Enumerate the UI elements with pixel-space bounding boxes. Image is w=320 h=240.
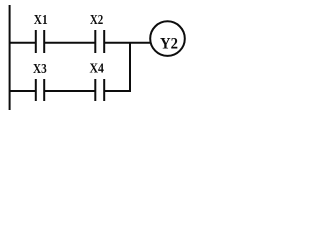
wire rung2 rail to X3 bbox=[9, 90, 36, 92]
svg-text:X4: X4 bbox=[90, 62, 105, 77]
contact X1 bbox=[36, 30, 44, 53]
svg-text:X3: X3 bbox=[33, 62, 47, 77]
wire X1 to X2 bbox=[44, 42, 96, 44]
wire X4 to branch corner bbox=[104, 90, 131, 92]
contact X3 bbox=[36, 79, 44, 101]
wire X2 to coil Y2 bbox=[104, 42, 151, 44]
wire branch junction vertical bbox=[129, 42, 131, 92]
svg-text:X2: X2 bbox=[90, 13, 103, 28]
svg-text:Y2: Y2 bbox=[160, 36, 178, 53]
svg-text:X1: X1 bbox=[34, 13, 48, 28]
left power rail bbox=[9, 5, 11, 110]
wire rung1 rail to X1 bbox=[9, 42, 36, 44]
wire X3 to X4 bbox=[44, 90, 96, 92]
coil Y2 bbox=[150, 21, 185, 56]
contact X2 bbox=[95, 30, 104, 53]
contact X4 bbox=[95, 79, 104, 101]
